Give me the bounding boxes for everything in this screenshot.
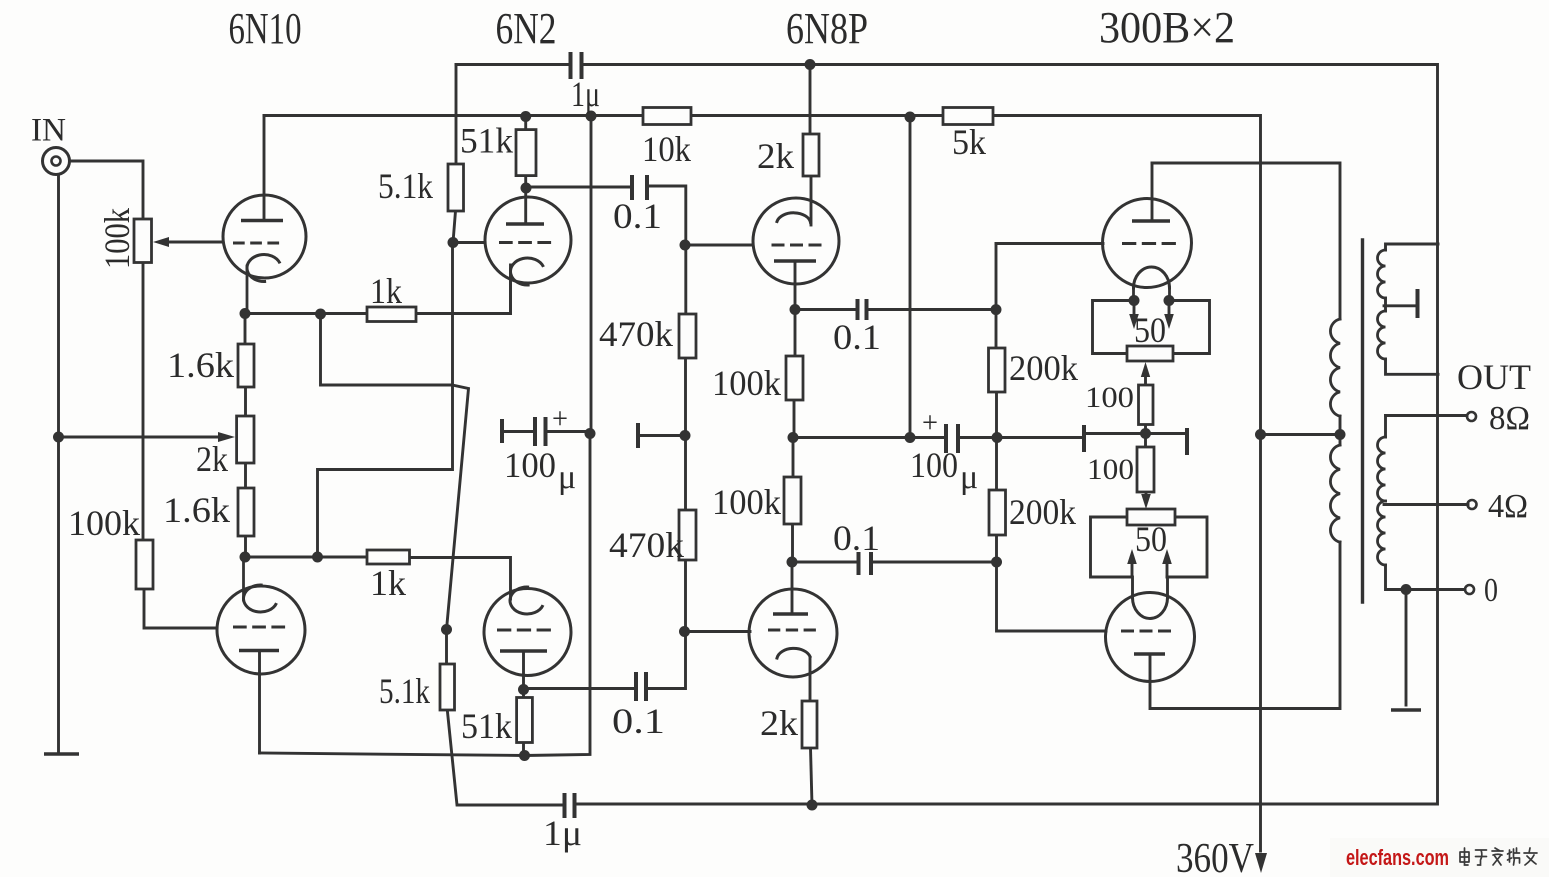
svg-text:51k: 51k xyxy=(461,706,512,746)
svg-text:0.1: 0.1 xyxy=(613,196,662,236)
svg-text:0: 0 xyxy=(1484,572,1498,609)
svg-text:2k: 2k xyxy=(757,136,794,176)
svg-text:2k: 2k xyxy=(196,439,228,479)
svg-text:+: + xyxy=(922,406,938,439)
svg-text:100k: 100k xyxy=(712,482,781,522)
svg-text:0.1: 0.1 xyxy=(833,317,881,357)
svg-text:0.1: 0.1 xyxy=(612,701,665,741)
svg-text:100: 100 xyxy=(504,445,556,485)
svg-text:200k: 200k xyxy=(1009,492,1076,532)
svg-text:200k: 200k xyxy=(1009,348,1078,388)
svg-text:8Ω: 8Ω xyxy=(1489,400,1530,437)
svg-text:2k: 2k xyxy=(760,703,798,743)
svg-text:IN: IN xyxy=(31,113,66,149)
svg-text:51k: 51k xyxy=(460,121,513,161)
svg-text:1k: 1k xyxy=(370,563,406,603)
svg-text:1.6k: 1.6k xyxy=(163,490,230,530)
svg-text:6N2: 6N2 xyxy=(496,4,557,53)
svg-text:5k: 5k xyxy=(952,122,986,162)
svg-text:1.6k: 1.6k xyxy=(167,345,234,385)
svg-text:5.1k: 5.1k xyxy=(379,671,430,711)
svg-text:6N10: 6N10 xyxy=(229,4,302,53)
svg-text:300B×2: 300B×2 xyxy=(1099,3,1235,52)
svg-text:50: 50 xyxy=(1134,310,1166,350)
svg-text:+: + xyxy=(552,402,568,435)
svg-text:100: 100 xyxy=(910,445,958,485)
svg-text:μ: μ xyxy=(558,459,576,496)
svg-text:OUT: OUT xyxy=(1457,357,1531,397)
svg-text:1k: 1k xyxy=(370,271,402,311)
svg-text:100: 100 xyxy=(1085,381,1134,414)
svg-text:50: 50 xyxy=(1135,519,1167,559)
svg-text:0.1: 0.1 xyxy=(833,518,880,558)
svg-text:100k: 100k xyxy=(68,503,140,543)
svg-text:1μ: 1μ xyxy=(571,74,600,114)
svg-text:470k: 470k xyxy=(599,314,673,354)
svg-text:10k: 10k xyxy=(642,129,691,169)
svg-text:1μ: 1μ xyxy=(543,813,582,853)
svg-text:100: 100 xyxy=(1087,453,1134,486)
svg-text:elecfans.com: elecfans.com xyxy=(1346,845,1449,870)
svg-text:5.1k: 5.1k xyxy=(378,166,433,206)
svg-text:6N8P: 6N8P xyxy=(786,4,868,53)
svg-text:μ: μ xyxy=(960,459,978,496)
svg-text:100k: 100k xyxy=(712,363,781,403)
svg-text:4Ω: 4Ω xyxy=(1488,488,1528,525)
svg-text:100k: 100k xyxy=(97,208,137,269)
svg-text:360V: 360V xyxy=(1176,836,1254,877)
svg-text:470k: 470k xyxy=(609,525,684,565)
